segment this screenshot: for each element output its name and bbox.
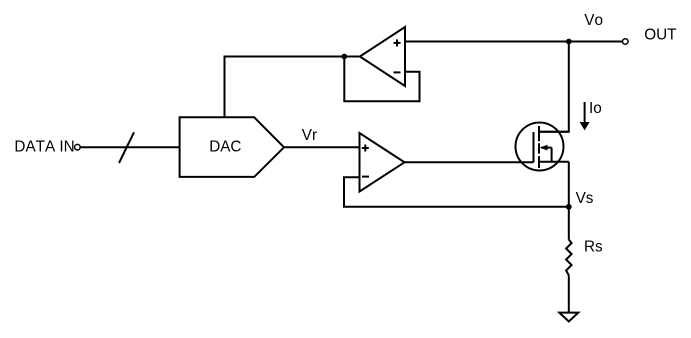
svg-text:Io: Io: [589, 100, 602, 117]
junction: Vo node: [566, 39, 572, 45]
junction: U2 output node: [341, 54, 347, 60]
wire: Q1 source down to resistor Rs: [568, 162, 570, 240]
wire: input terminal to DAC: [80, 146, 179, 148]
wire: U2 feedback (- input to output): [344, 57, 419, 102]
Q1 source lead: [539, 161, 569, 163]
Q1 body arrow: [540, 145, 552, 162]
ground: [559, 313, 578, 322]
svg-text:DATA IN: DATA IN: [14, 138, 74, 155]
U2 minus input marker: [394, 71, 401, 73]
output terminal: [623, 39, 629, 45]
svg-text:DAC: DAC: [209, 138, 241, 155]
input terminal: [75, 144, 81, 150]
Q1 drain lead: [539, 131, 569, 133]
Q1 channel (dashed): [538, 126, 540, 168]
svg-text:Vr: Vr: [302, 127, 317, 144]
Io current arrow: [580, 102, 590, 130]
wire: resistor Rs to ground: [568, 275, 570, 312]
svg-text:Rs: Rs: [584, 238, 603, 255]
U3 plus input marker: [362, 145, 369, 152]
wire: U2 + input to OUT terminal (net Vo): [405, 41, 623, 43]
svg-text:Vo: Vo: [584, 12, 603, 29]
U3 minus input marker: [362, 176, 369, 178]
op-amp U3 (points right): [360, 133, 405, 192]
resistor Rs: [566, 240, 572, 276]
svg-text:OUT: OUT: [644, 26, 676, 43]
wire: DAC top pin to op-amp U2 output: [225, 57, 360, 118]
wire: U3 feedback (- input to Vs node): [344, 177, 569, 207]
wire: DAC output to U3 + input (net Vr): [284, 146, 360, 148]
DAC U1: [180, 117, 284, 177]
op-amp U2 (unity buffer, points left): [360, 27, 405, 86]
wire: Vo node down to MOSFET drain: [539, 42, 569, 132]
U2 plus input marker: [394, 39, 401, 46]
svg-text:Vs: Vs: [576, 190, 594, 207]
junction: Vs node: [566, 204, 572, 210]
MOSFET Q1 body circle: [516, 123, 564, 171]
Q1 gate bar: [533, 132, 535, 162]
bus slash: [119, 132, 134, 163]
wire: U3 output to Q1 gate: [405, 161, 534, 163]
